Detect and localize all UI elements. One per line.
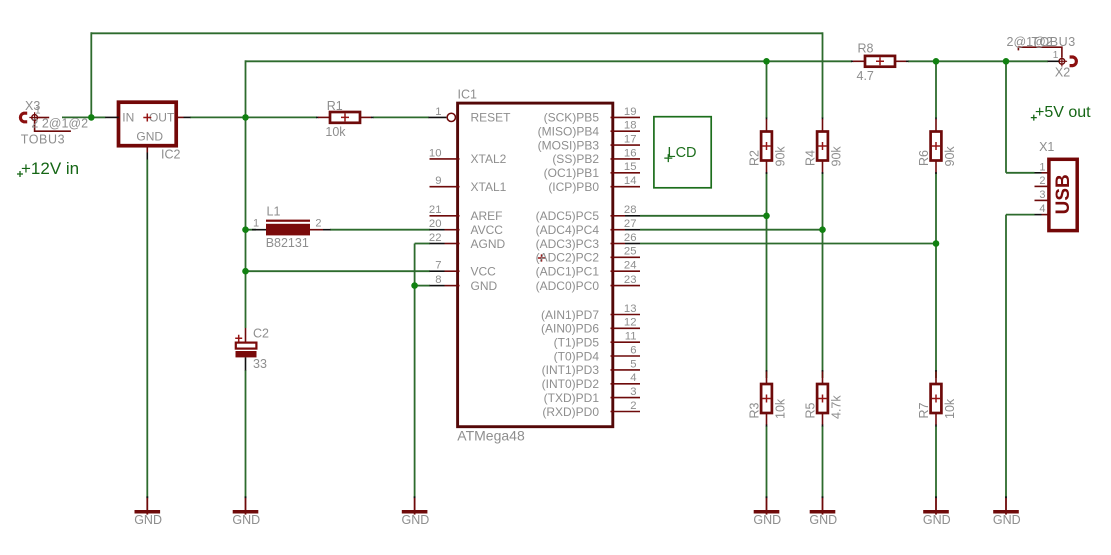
ground symbol below USB (1005, 496, 1007, 498)
svg-text:OUT: OUT (149, 111, 175, 125)
pin 23 (ADC0)PC0 stub (611, 285, 641, 287)
svg-text:3: 3 (630, 386, 636, 398)
svg-text:GND: GND (136, 129, 163, 143)
pin 16 (SS)PB2 stub (611, 158, 641, 160)
svg-text:(ICP)PB0: (ICP)PB0 (548, 180, 599, 194)
pin 21 AREF stub (430, 215, 460, 217)
wire +12V net: right vertical drop to R4 (822, 32, 824, 118)
pin 25 (ADC2)PC2 stub (611, 256, 641, 258)
wire junction to IC2 IN (91, 116, 105, 118)
wire pin28 to R2 (640, 215, 767, 217)
svg-text:7: 7 (435, 260, 441, 272)
wire +12V net: left vertical segment (90, 32, 92, 117)
svg-text:R7: R7 (917, 402, 931, 418)
svg-text:23: 23 (624, 274, 637, 286)
R8 leads (851, 60, 854, 62)
svg-text:1: 1 (1039, 161, 1045, 173)
pin 27 (ADC4)PC4 stub (611, 229, 626, 231)
svg-text:21: 21 (429, 204, 442, 216)
svg-text:10k: 10k (943, 398, 957, 419)
svg-text:GND: GND (134, 513, 162, 527)
pin 5 (INT1)PD3 stub (611, 369, 641, 371)
svg-text:(TXD)PD1: (TXD)PD1 (544, 391, 600, 405)
svg-text:1: 1 (35, 106, 41, 117)
svg-text:4.7k: 4.7k (829, 395, 843, 419)
wire R6/R7 column middle (935, 244, 937, 379)
origin cross of +12V label (17, 171, 23, 177)
wire R6 column top (935, 61, 937, 118)
svg-text:IN: IN (122, 111, 134, 125)
origin cross of IC1 (538, 254, 545, 261)
pin 24 (ADC1)PC1 stub (611, 270, 641, 272)
wire X3 pin 2 bent stub (35, 120, 71, 132)
ground symbol below R3 (766, 496, 768, 498)
svg-text:11: 11 (625, 331, 637, 343)
svg-text:4.7: 4.7 (857, 69, 874, 83)
resistor R5 body (817, 384, 828, 413)
pin 22 AGND stub (430, 243, 445, 245)
resistor R8 body (865, 56, 895, 67)
svg-text:IC1: IC1 (458, 88, 478, 102)
svg-text:R5: R5 (803, 402, 817, 418)
resistor R3 body (761, 384, 772, 413)
ground symbol below C2 (245, 496, 247, 498)
svg-text:1: 1 (1053, 50, 1059, 61)
svg-text:GND: GND (753, 513, 781, 527)
connector X1 body (1049, 159, 1077, 230)
svg-text:13: 13 (624, 303, 637, 315)
wire USB pin4 to ground (1005, 215, 1007, 498)
origin cross of R3 (763, 395, 771, 403)
wire GND pin8 horizontal (415, 285, 430, 287)
voltage regulator IC2 body and pins (119, 102, 177, 146)
svg-text:VCC: VCC (471, 265, 497, 279)
wire X2 pin 2 bent stub (1018, 47, 1062, 57)
svg-text:10: 10 (429, 147, 442, 159)
pin 10 XTAL2 stub (430, 158, 460, 160)
wire L1 to AVCC (330, 229, 430, 231)
pin 18 (MISO)PB4 stub (611, 130, 641, 132)
svg-text:(ADC0)PC0: (ADC0)PC0 (536, 279, 600, 293)
svg-text:2: 2 (630, 400, 636, 412)
svg-text:14: 14 (624, 175, 637, 187)
wire R4/R5 column middle (822, 230, 824, 378)
svg-text:(AIN0)PD6: (AIN0)PD6 (541, 322, 599, 336)
svg-text:24: 24 (624, 260, 637, 272)
svg-text:+5V out: +5V out (1035, 104, 1091, 121)
svg-text:AREF: AREF (471, 209, 503, 223)
svg-text:(SCK)PB5: (SCK)PB5 (544, 111, 600, 125)
pin 20 AVCC stub (430, 229, 445, 231)
svg-text:33: 33 (253, 357, 267, 371)
svg-text:2: 2 (1039, 175, 1045, 187)
pin 17 (MOSI)PB3 stub (611, 144, 641, 146)
origin cross of R5 (819, 395, 827, 403)
wire pin26 to R6 (640, 243, 936, 245)
origin cross of +5V label (1031, 115, 1037, 121)
wire X3 to junction (62, 116, 92, 118)
pin 1 RESET with inversion bubble (429, 116, 447, 118)
resistor R3 leads (766, 370, 768, 372)
svg-text:GND: GND (232, 513, 260, 527)
pin 8 GND stub (430, 285, 445, 287)
L1 leads (252, 229, 266, 231)
R1 leads (316, 116, 319, 118)
resistor R6 leads (935, 118, 937, 120)
svg-text:(T0)PD4: (T0)PD4 (554, 349, 600, 363)
svg-text:R2: R2 (747, 150, 761, 166)
svg-text:90k: 90k (773, 146, 787, 167)
wire VCC net (246, 270, 431, 272)
origin cross of R2 (763, 142, 771, 150)
svg-text:GND: GND (471, 279, 498, 293)
pin 15 (OC1)PB1 stub (611, 172, 641, 174)
wire +12V net: top horizontal rail (91, 32, 822, 34)
svg-text:AVCC: AVCC (471, 223, 504, 237)
origin cross of R6 (932, 142, 940, 150)
wire X2 pin stub (1048, 60, 1059, 62)
svg-text:(RXD)PD0: (RXD)PD0 (542, 405, 599, 419)
svg-text:(ADC2)PC2: (ADC2)PC2 (536, 251, 600, 265)
junction pin27/R4 (819, 226, 826, 233)
connector X2 socket symbol (1070, 57, 1077, 66)
wire X3 pin 1 stub (38, 117, 49, 119)
pin 11 (T1)PD5 stub (611, 341, 641, 343)
pin 14 (ICP)PB0 stub (611, 186, 641, 188)
svg-text:8: 8 (435, 274, 441, 286)
svg-text:GND: GND (993, 513, 1021, 527)
junction VCC tap (242, 268, 249, 275)
svg-text:4: 4 (630, 372, 636, 384)
svg-text:GND: GND (923, 513, 951, 527)
resistor R1 body (330, 112, 360, 123)
wire R6 to pin26 junction (935, 173, 937, 244)
pin 7 VCC stub (430, 270, 445, 272)
pin 3 (TXD)PD1 stub (611, 397, 641, 399)
X1 pin 4 stub (1035, 214, 1042, 216)
svg-text:10k: 10k (773, 398, 787, 419)
origin cross of R4 (819, 142, 827, 150)
svg-text:20: 20 (429, 218, 442, 230)
microcontroller IC1 body (458, 103, 613, 427)
resistor R7 body (931, 384, 942, 413)
svg-text:6: 6 (630, 344, 636, 356)
wire C2 column upper (245, 117, 247, 328)
wire +5V rail: R8 to X2 (908, 60, 1048, 62)
origin cross of IC2 (143, 114, 151, 122)
svg-text:19: 19 (624, 106, 637, 118)
svg-text:(MISO)PB4: (MISO)PB4 (538, 125, 600, 139)
inductor L1 body (266, 220, 310, 222)
svg-text:1: 1 (253, 218, 259, 230)
svg-text:TOBU3: TOBU3 (1031, 35, 1075, 49)
wire pin27 to R4 (640, 229, 823, 231)
wire R2 column top (766, 61, 768, 118)
wire R1 to IC1 RESET (373, 116, 429, 118)
wire R3 to ground (766, 426, 768, 498)
svg-text:+12V in: +12V in (21, 159, 79, 178)
resistor R5 leads (822, 370, 824, 372)
wire R4 to pin27 junction (822, 173, 824, 230)
svg-text:(OC1)PB1: (OC1)PB1 (544, 166, 600, 180)
wire R7 to ground (935, 426, 937, 498)
capacitor C2 bottom plate (236, 351, 257, 357)
svg-text:RESET: RESET (471, 111, 512, 125)
svg-text:AGND: AGND (471, 237, 506, 251)
svg-text:R6: R6 (917, 150, 931, 166)
resistor R4 body (817, 132, 828, 161)
X1 pin 2 stub (1035, 185, 1049, 187)
svg-text:(INT1)PD3: (INT1)PD3 (542, 363, 600, 377)
X1 pin 3 stub (1035, 199, 1049, 201)
svg-text:12: 12 (624, 317, 637, 329)
resistor R2 body (761, 132, 772, 161)
svg-text:4: 4 (1039, 203, 1045, 215)
svg-text:27: 27 (624, 218, 637, 230)
resistor R7 leads (935, 370, 937, 372)
wire AGND column down (414, 244, 416, 499)
svg-text:ATMega48: ATMega48 (457, 427, 525, 443)
svg-text:X2: X2 (1055, 66, 1070, 80)
junction L1 pin1 (242, 226, 249, 233)
svg-text:2: 2 (315, 218, 321, 230)
svg-text:15: 15 (624, 161, 637, 173)
junction R2 top on +5V rail (763, 58, 770, 65)
wire R2/R3 column middle (766, 216, 768, 378)
svg-text:USB: USB (1053, 174, 1074, 214)
pin 26 (ADC3)PC3 stub (611, 243, 626, 245)
svg-text:TOBU3: TOBU3 (21, 133, 65, 147)
pin 9 XTAL1 stub (430, 186, 460, 188)
LCD module outline (654, 117, 711, 188)
svg-text:22: 22 (429, 232, 442, 244)
svg-text:(T1)PD5: (T1)PD5 (554, 336, 600, 350)
wire R5 to ground (822, 426, 824, 498)
origin cross of R1 (341, 113, 349, 121)
ground symbol below R5 (822, 496, 824, 498)
origin cross of LCD label (664, 154, 672, 162)
X1 pin 1 stub (1035, 172, 1042, 174)
svg-text:R8: R8 (858, 41, 874, 55)
junction X3/+12V (88, 114, 95, 121)
C2 polarity cross (235, 335, 242, 342)
ground symbol below IC2 (146, 496, 148, 498)
capacitor C2 top lead (245, 328, 247, 343)
pin 4 (INT0)PD2 stub (611, 383, 641, 385)
resistor R4 leads (822, 118, 824, 120)
pin 19 (SCK)PB5 stub (611, 116, 641, 118)
svg-text:5: 5 (630, 358, 636, 370)
svg-text:IC2: IC2 (161, 147, 181, 161)
junction R6 top on +5V rail (933, 58, 940, 65)
svg-text:26: 26 (624, 232, 637, 244)
svg-text:18: 18 (624, 120, 637, 132)
pin 13 (AIN1)PD7 stub (611, 314, 641, 316)
origin cross of R7 (932, 395, 940, 403)
wire USB pin4 horizontal (1006, 214, 1035, 216)
junction pin28/R2 (763, 213, 770, 220)
wire IC2 GND down to ground (146, 160, 148, 499)
svg-text:XTAL1: XTAL1 (471, 180, 507, 194)
pin 6 (T0)PD4 stub (611, 355, 641, 357)
origin cross of R8 (876, 57, 884, 65)
junction IC2 OUT / +5V rail (242, 114, 249, 121)
svg-text:GND: GND (809, 513, 837, 527)
svg-text:GND: GND (402, 513, 430, 527)
svg-text:90k: 90k (829, 146, 843, 167)
wire +5V rail: horizontal to R8 (246, 60, 853, 62)
svg-text:2 2@1@2: 2 2@1@2 (31, 117, 88, 131)
svg-text:B82131: B82131 (266, 236, 309, 250)
ground symbol below R7 (935, 496, 937, 498)
capacitor C2 top plate (236, 343, 257, 349)
junction AGND/GND (411, 282, 418, 289)
wire C2 column lower (245, 370, 247, 498)
svg-text:L1: L1 (267, 205, 281, 219)
resistor R6 body (931, 132, 942, 161)
connector X3 socket symbol (20, 113, 27, 122)
pin 2 (RXD)PD0 stub (611, 411, 641, 413)
svg-text:90k: 90k (943, 146, 957, 167)
svg-text:(ADC3)PC3: (ADC3)PC3 (536, 237, 600, 251)
junction USB feed on +5V rail (1003, 58, 1010, 65)
pin 28 (ADC5)PC5 stub (611, 215, 626, 217)
ground symbol below AGND (414, 496, 416, 498)
wire IC2 OUT to R1 (190, 116, 317, 118)
svg-text:R4: R4 (803, 150, 817, 166)
svg-text:10k: 10k (325, 125, 346, 139)
svg-text:3: 3 (1039, 189, 1045, 201)
svg-text:9: 9 (435, 175, 441, 187)
junction pin26/R6 (933, 240, 940, 247)
svg-text:17: 17 (624, 134, 637, 146)
svg-text:(MOSI)PB3: (MOSI)PB3 (538, 138, 600, 152)
svg-text:1: 1 (435, 106, 441, 118)
svg-text:XTAL2: XTAL2 (471, 152, 507, 166)
svg-text:28: 28 (624, 204, 637, 216)
wire +5V to USB pin1 vertical (1005, 61, 1007, 173)
resistor R2 leads (766, 118, 768, 120)
svg-text:25: 25 (624, 246, 637, 258)
svg-text:(ADC5)PC5: (ADC5)PC5 (536, 209, 600, 223)
svg-text:(ADC1)PC1: (ADC1)PC1 (536, 265, 600, 279)
pin 12 (AIN0)PD6 stub (611, 327, 641, 329)
wire +5V rail: vertical from OUT junction (245, 60, 247, 117)
svg-text:(ADC4)PC4: (ADC4)PC4 (536, 223, 600, 237)
svg-text:(INT0)PD2: (INT0)PD2 (542, 377, 600, 391)
wire L1 junction stub (246, 229, 257, 231)
svg-text:C2: C2 (253, 327, 269, 341)
capacitor C2 bottom lead (245, 357, 247, 370)
wire AGND horizontal (415, 243, 430, 245)
wire R2 to pin28 junction (766, 173, 768, 216)
svg-text:X1: X1 (1039, 140, 1054, 154)
svg-text:R1: R1 (327, 99, 343, 113)
svg-text:(SS)PB2: (SS)PB2 (552, 152, 599, 166)
svg-text:R3: R3 (747, 402, 761, 418)
svg-text:16: 16 (624, 147, 637, 159)
svg-text:(AIN1)PD7: (AIN1)PD7 (541, 308, 599, 322)
wire to USB pin1 (1006, 172, 1035, 174)
